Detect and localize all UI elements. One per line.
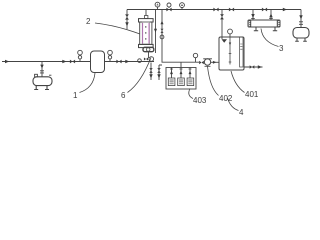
svg-text:4: 4 xyxy=(239,108,244,117)
svg-text:1: 1 xyxy=(73,91,78,100)
svg-text:401: 401 xyxy=(245,90,259,99)
svg-text:403: 403 xyxy=(193,96,207,105)
svg-text:2: 2 xyxy=(86,17,91,26)
svg-text:6: 6 xyxy=(121,91,126,100)
svg-text:3: 3 xyxy=(279,44,284,53)
svg-text:402: 402 xyxy=(219,94,233,103)
